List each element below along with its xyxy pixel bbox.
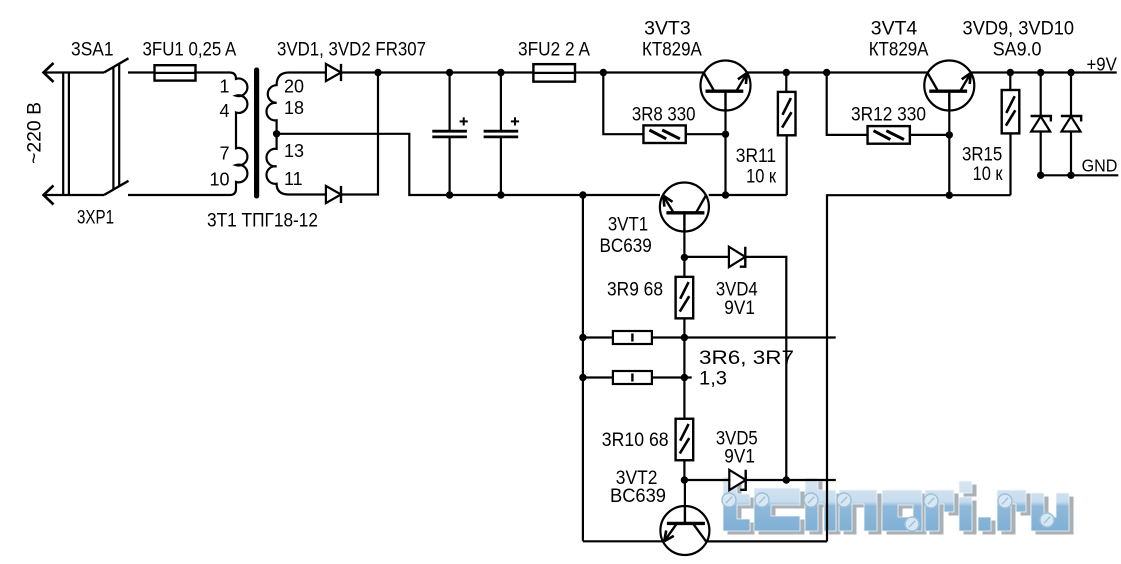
node 3VT4 base row junction (946, 192, 953, 199)
transistor 3VT4 (924, 61, 974, 111)
svg-text:10 к: 10 к (746, 167, 777, 188)
wire GND rail (1041, 174, 1119, 176)
capacitor C1 lower lead (449, 137, 451, 195)
node 3VD4 branch joins 3VD5 row (783, 476, 790, 483)
wire 3VT3 base down to 3VT1 collector (724, 111, 726, 196)
node C1 top (446, 69, 453, 76)
resistor 3R12 (868, 126, 910, 144)
svg-text:3VT4: 3VT4 (871, 19, 918, 40)
node 3R11 top (783, 69, 790, 76)
svg-text:SA9.0: SA9.0 (993, 40, 1042, 61)
wire 3VT1 base down (683, 232, 685, 258)
resistor 3R7 left lead (583, 376, 613, 378)
node 3R6 right (681, 334, 688, 341)
svg-text:3R8 330: 3R8 330 (632, 105, 696, 126)
wire right riser up to 3VT4 base row (827, 195, 1011, 541)
svg-text:3R11: 3R11 (736, 146, 776, 167)
svg-text:BC639: BC639 (610, 486, 666, 507)
node C2 bottom (497, 191, 504, 198)
connector 3XP1 socket lines (63, 73, 69, 196)
svg-text:3Т1 ТПГ18-12: 3Т1 ТПГ18-12 (207, 211, 318, 232)
switch 3SA1 bottom pole blade (104, 181, 129, 195)
wire 3R11 bottom (786, 135, 788, 195)
svg-text:КТ829А: КТ829А (642, 40, 702, 61)
resistor 3R11 (785, 73, 787, 92)
node 3R15 top (1007, 69, 1014, 76)
svg-text:3R12 330: 3R12 330 (851, 105, 926, 126)
wire 3R8 branch down and to resistor (603, 73, 643, 135)
wire 3R6 row to 3R7 row (683, 338, 685, 378)
node 3R10 / 3VD5 / 3VT2 base (681, 476, 688, 483)
zener diode 3VD9 (1031, 116, 1051, 132)
svg-text:9V1: 9V1 (724, 447, 755, 468)
wire negative rail branch down (left bus) (582, 195, 584, 541)
node diode outputs join (374, 69, 381, 76)
svg-text:BC639: BC639 (599, 236, 651, 257)
node 3R7 left (579, 374, 586, 381)
node 3R8 base junction (722, 131, 729, 138)
fuse 3FU2 (533, 64, 575, 82)
node 3VD10 top (1067, 69, 1074, 76)
zener diode 3VD9 wire (1040, 73, 1042, 176)
resistor 3R8 (643, 125, 685, 143)
wire node to zener 3VD5 (684, 479, 729, 481)
wire 3VD5 to right (746, 479, 836, 481)
resistor 3R10 (676, 419, 694, 461)
transistor 3VT1 (660, 183, 709, 232)
capacitor C2 (polarized) (484, 117, 519, 137)
svg-text:9V1: 9V1 (724, 298, 755, 319)
node 3VD9 top (1037, 69, 1044, 76)
resistor 3R9 (676, 277, 694, 319)
wire 3R10 to 3VD5 row (683, 460, 685, 480)
svg-text:3FU1 0,25 A: 3FU1 0,25 A (143, 40, 237, 61)
svg-text:3SA1: 3SA1 (71, 40, 114, 61)
node 3R12 base junction (946, 131, 953, 138)
wire 3VD4 to right branch (745, 257, 786, 480)
capacitor C2 lower lead (500, 137, 502, 195)
svg-text:1,3: 1,3 (699, 369, 727, 390)
svg-text:3R15: 3R15 (962, 145, 1002, 166)
svg-text:20: 20 (284, 77, 304, 97)
watermark tehnari.ru (722, 477, 1074, 535)
node 3VD10 bottom (1067, 172, 1074, 179)
wire 3FU2 to 3VT3 collector (575, 71, 704, 73)
wire 3R12 to 3VT4 base (910, 134, 950, 136)
wire 3VT1 collector row (709, 194, 787, 196)
secondary winding of 3T1 upper half (pins 20-18) (266, 73, 326, 134)
svg-text:3R9 68: 3R9 68 (607, 280, 663, 301)
wire 3R12 branch down (827, 73, 868, 135)
zener diode 3VD10 (1061, 116, 1081, 132)
svg-text:4: 4 (219, 101, 229, 121)
transformer 3T1 core (254, 68, 259, 199)
zener diode 3VD4 (729, 247, 745, 267)
svg-text:3ХР1: 3ХР1 (77, 208, 114, 229)
node 3R6 left (579, 334, 586, 341)
wire 3VT2 collector to right riser (706, 540, 827, 542)
resistor 3R6 left lead (583, 336, 613, 338)
transistor 3VT3 (701, 61, 751, 111)
node C2 top (497, 69, 504, 76)
wire 3R8 to 3VT3 base (686, 133, 726, 135)
svg-text:1: 1 (219, 76, 229, 96)
resistor 3R15 (1002, 90, 1020, 133)
node 3R7 right (681, 374, 688, 381)
node transformer center tap (273, 130, 280, 137)
svg-text:GND: GND (1082, 155, 1118, 175)
node negative rail branch (579, 191, 586, 198)
switch 3SA1 top pole blade (104, 58, 129, 72)
wire switch to fuse 3FU1 (128, 71, 154, 73)
wire center tap to negative rail (277, 134, 660, 195)
node 3VT3 base / 3VT1 collector (722, 191, 729, 198)
wire 3VT2 emitter to left bus (583, 540, 664, 542)
secondary winding of 3T1 lower half (pins 13-11) (266, 134, 326, 195)
connector 3XP1 bottom pin arrow (44, 186, 105, 205)
svg-text:3VT3: 3VT3 (644, 19, 691, 40)
node 3R8 branch (600, 69, 607, 76)
node 3VT1 base / 3VD4 / 3R9 (681, 254, 688, 261)
wire 3VT4 base down (948, 111, 950, 196)
node 3VD9 bottom (1037, 172, 1044, 179)
wire 3R15 bottom (1009, 133, 1011, 195)
node 3R12 branch top (823, 69, 830, 76)
svg-text:10: 10 (209, 170, 229, 190)
wire 3VD5 node down to 3VT2 base (684, 480, 686, 506)
diode 3VD2 (326, 186, 341, 203)
svg-text:13: 13 (284, 141, 304, 161)
wire 3R6 right + bus to right (652, 336, 836, 338)
svg-text:3R6, 3R7: 3R6, 3R7 (699, 348, 794, 369)
svg-text:3FU2 2 A: 3FU2 2 A (518, 40, 590, 61)
svg-text:~220 В: ~220 В (25, 102, 46, 164)
svg-text:3VD9, 3VD10: 3VD9, 3VD10 (963, 19, 1075, 40)
wire 3VD2 cathode up to positive rail (341, 73, 378, 195)
svg-text:11: 11 (284, 169, 303, 189)
svg-text:7: 7 (219, 144, 229, 164)
capacitor C2 lead (500, 73, 502, 132)
wire 3VT3 emitter to 3VT4 collector (747, 71, 928, 73)
switch 3SA1 mechanical link lines (113, 64, 119, 189)
svg-text:3VT1: 3VT1 (608, 215, 648, 236)
svg-text:10 к: 10 к (973, 164, 1004, 185)
node C1 bottom (446, 191, 453, 198)
fuse 3FU1 (155, 65, 196, 80)
svg-text:3R10 68: 3R10 68 (602, 430, 669, 451)
transistor 3VT2 (660, 506, 709, 555)
resistor 3R6 (613, 331, 652, 344)
capacitor C1 lead (449, 73, 451, 132)
wire base node to zener 3VD4 (684, 256, 729, 258)
zener diode 3VD10 wire (1070, 73, 1072, 176)
wire 3VD1 cathode to fuse 3FU2 (341, 71, 533, 73)
wire 3VT4 emitter to +9V output (971, 71, 1116, 73)
connector 3XP1 top pin arrow (44, 63, 105, 82)
wire 3R9 to 3R6 row (683, 318, 685, 337)
resistor 3R9 top lead (683, 257, 685, 277)
wire fuse to transformer primary + primary winding of 3T1 (128, 73, 247, 196)
svg-text:18: 18 (284, 98, 304, 118)
svg-text:+9V: +9V (1087, 54, 1117, 74)
capacitor C1 (polarized) (432, 117, 468, 137)
svg-text:3VD1, 3VD2 FR307: 3VD1, 3VD2 FR307 (277, 40, 426, 61)
resistor 3R15 top lead (1009, 73, 1011, 92)
svg-text:КТ829А: КТ829А (869, 40, 929, 61)
wire 3R7 right stub (652, 376, 692, 378)
zener diode 3VD5 (729, 470, 745, 490)
diode 3VD1 (326, 64, 341, 81)
resistor 3R7 (613, 371, 652, 384)
wire 3R7 row to 3R10 (683, 378, 685, 419)
